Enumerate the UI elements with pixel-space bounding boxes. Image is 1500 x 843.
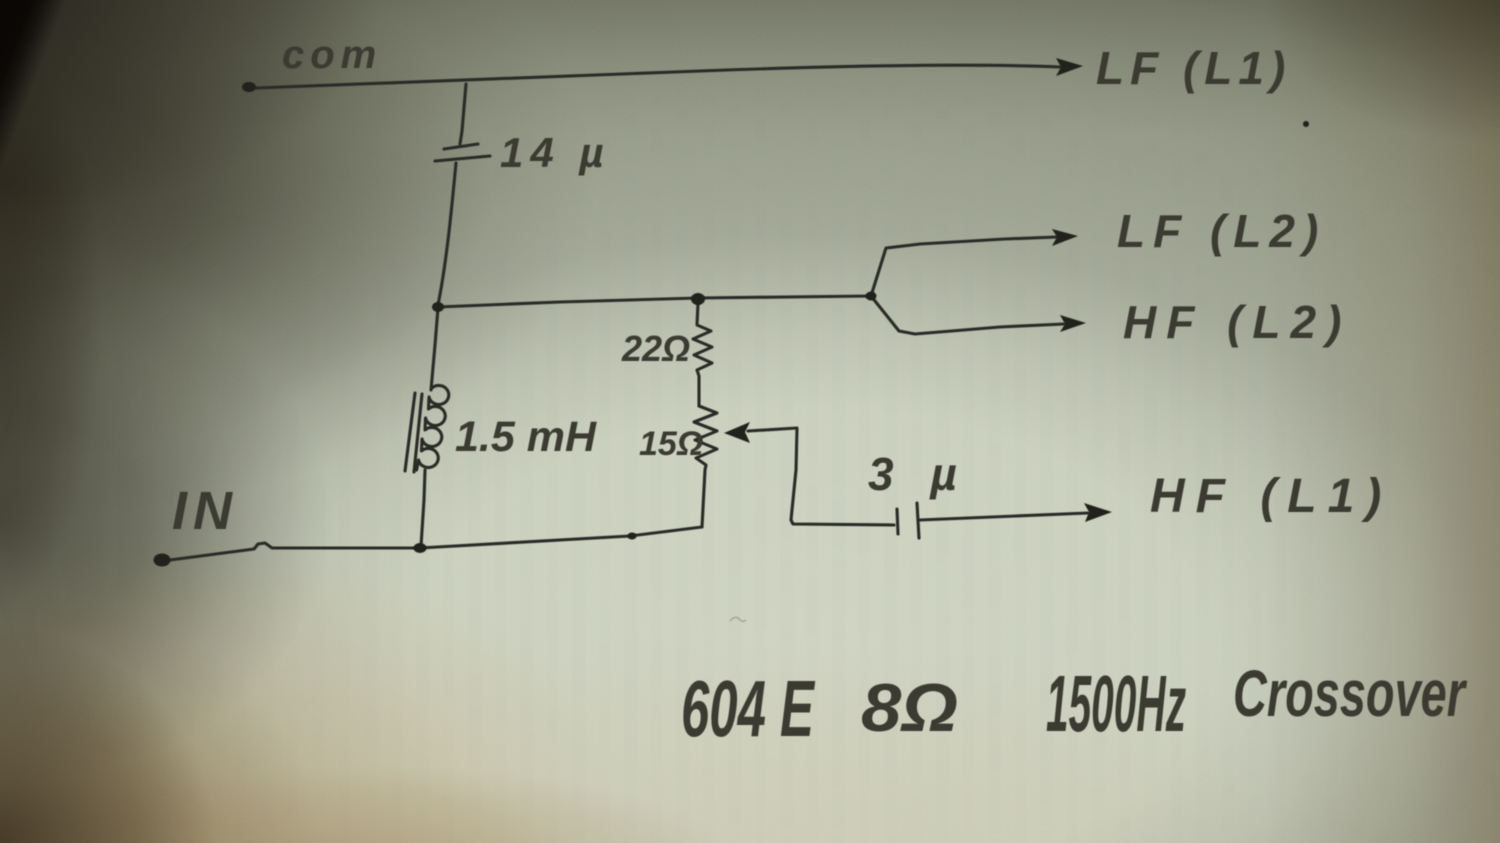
svg-text:14 µ: 14 µ: [500, 129, 611, 176]
svg-text:1.5 mH: 1.5 mH: [455, 413, 597, 461]
svg-text:1500Hz: 1500Hz: [1046, 659, 1186, 748]
svg-text:HF (L1): HF (L1): [1150, 470, 1392, 523]
svg-text:com: com: [282, 33, 382, 77]
svg-text:15Ω: 15Ω: [639, 425, 703, 463]
svg-text:LF (L2): LF (L2): [1117, 205, 1326, 257]
svg-text:22Ω: 22Ω: [621, 328, 690, 369]
svg-text:HF (L2): HF (L2): [1123, 296, 1351, 348]
svg-text:3 µ: 3 µ: [868, 448, 969, 500]
svg-text:IN: IN: [172, 481, 238, 541]
svg-text:8Ω: 8Ω: [861, 670, 958, 746]
svg-text:LF (L1): LF (L1): [1096, 42, 1291, 94]
svg-text:604 E: 604 E: [681, 664, 816, 753]
svg-text:Crossover: Crossover: [1233, 656, 1467, 730]
